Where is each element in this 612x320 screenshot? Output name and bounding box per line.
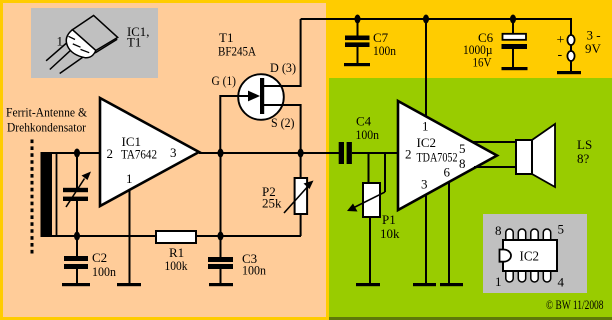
wire IC1 pin1 to ground — [129, 190, 131, 283]
capacitor C2 — [76, 236, 78, 257]
wire IC1 output to C4 — [199, 152, 340, 154]
P1 wiper arrow — [384, 153, 386, 192]
svg-text:8?: 8? — [577, 151, 590, 166]
svg-text:1: 1 — [126, 171, 133, 186]
capacitor C4 — [339, 142, 344, 164]
junction node antenna bottom — [74, 232, 80, 241]
DIP-8 pins top — [506, 229, 551, 240]
svg-text:TDA7052: TDA7052 — [417, 150, 458, 165]
svg-text:P1: P1 — [382, 212, 396, 227]
svg-text:16V: 16V — [473, 55, 493, 70]
junction node R1 C3 — [218, 232, 224, 241]
svg-text:G (1): G (1) — [212, 74, 237, 88]
svg-text:TA7642: TA7642 — [121, 147, 157, 162]
top supply rail — [301, 19, 571, 36]
antenna dashed rod axis — [31, 140, 34, 257]
svg-text:10k: 10k — [380, 226, 400, 241]
svg-text:5: 5 — [459, 141, 466, 156]
ground under minus terminal — [557, 71, 581, 74]
svg-text:-: - — [558, 48, 563, 63]
svg-text:1: 1 — [57, 34, 64, 49]
DIP-8 pins bottom — [506, 271, 551, 282]
svg-text:Ferrit-Antenne &: Ferrit-Antenne & — [6, 105, 87, 120]
potentiometer P1 — [368, 153, 370, 184]
ground under IC2 pin3 — [413, 283, 436, 286]
wire node to R1/C3 node — [220, 153, 222, 236]
svg-text:C2: C2 — [92, 250, 107, 265]
junction node IC2 pin1 rail — [423, 15, 429, 24]
svg-text:S (2): S (2) — [271, 116, 295, 130]
svg-text:LS: LS — [577, 137, 592, 152]
junction node P2 top — [298, 149, 304, 158]
svg-text:100n: 100n — [356, 127, 380, 142]
variable capacitor leads — [76, 153, 78, 189]
ground under IC1 — [117, 283, 141, 286]
wire C4 to IC2 pin 2 — [352, 152, 398, 154]
T1 source wire to node — [261, 105, 301, 153]
junction node antenna top — [74, 149, 80, 158]
gray panel: TO-92 package drawing — [31, 8, 158, 78]
potentiometer P2 — [300, 153, 302, 179]
junction node C7 rail — [355, 15, 361, 24]
op-amp IC2 TDA7052 triangle — [398, 101, 497, 210]
T1 gate wire — [220, 96, 248, 153]
svg-text:D (3): D (3) — [270, 61, 296, 75]
svg-text:100n: 100n — [242, 263, 266, 278]
TO-92 leads — [46, 40, 84, 74]
svg-text:3: 3 — [170, 145, 177, 160]
antenna ferrite rod L1 — [41, 152, 53, 236]
TO-92 package body — [66, 16, 117, 58]
svg-text:3: 3 — [421, 177, 428, 192]
ground under IC2 pin6 — [440, 283, 463, 286]
battery terminal plus — [567, 35, 574, 45]
svg-text:8: 8 — [495, 223, 502, 238]
antenna coil wire — [56, 153, 58, 237]
wire IC2 pin5 to speaker — [472, 141, 516, 143]
ground under C3 — [209, 283, 233, 286]
wire IC2 pin3 to ground — [425, 195, 427, 283]
svg-text:BF245A: BF245A — [218, 44, 257, 59]
svg-text:25k: 25k — [262, 196, 282, 211]
svg-text:2: 2 — [405, 147, 412, 162]
junction node C6 rail — [510, 15, 516, 24]
DIP-8 body — [503, 240, 557, 271]
speaker LS — [532, 124, 555, 187]
T1 drain wire to top rail — [261, 19, 301, 86]
gray panel: DIP-8 package drawing — [483, 214, 587, 293]
capacitor C7 — [357, 19, 359, 36]
wire R1 right to node — [196, 235, 301, 237]
ground under C7 — [344, 63, 370, 66]
wire IC2 pin8 to speaker — [474, 166, 516, 168]
resistor R1 — [156, 231, 196, 243]
capacitor C6 electrolytic — [512, 19, 514, 34]
capacitor C3 — [220, 236, 222, 258]
wire IC2 pin6 to ground — [448, 182, 450, 283]
wire IC2 pin1 from rail — [425, 19, 427, 118]
transistor T1 BF245A — [238, 74, 284, 120]
wire antenna top to IC1 input — [41, 152, 101, 154]
op-amp IC1 TA7642 triangle — [100, 98, 199, 206]
svg-text:9V: 9V — [585, 41, 602, 56]
svg-text:100n: 100n — [373, 43, 396, 58]
ground under P1 — [356, 283, 380, 286]
ground under C6 — [502, 67, 528, 70]
svg-text:5: 5 — [558, 222, 565, 237]
svg-text:6: 6 — [444, 165, 451, 180]
battery terminal minus — [570, 45, 572, 51]
svg-text:IC2: IC2 — [417, 135, 437, 150]
T1 channel bar — [260, 78, 264, 114]
svg-text:100n: 100n — [92, 264, 116, 279]
svg-text:100k: 100k — [165, 258, 188, 273]
variable capacitor plates — [63, 188, 88, 192]
svg-text:© BW 11/2008: © BW 11/2008 — [546, 297, 604, 312]
svg-text:IC2: IC2 — [520, 250, 540, 265]
svg-text:+: + — [557, 33, 565, 48]
svg-text:1: 1 — [495, 274, 502, 289]
variable capacitor arrow — [66, 179, 85, 208]
junction node output top — [218, 149, 224, 158]
background yellow supply region — [329, 0, 612, 78]
svg-text:Drehkondensator: Drehkondensator — [7, 119, 87, 134]
svg-text:4: 4 — [558, 275, 565, 290]
DIP-8 notch — [500, 250, 512, 262]
background green amplifier region — [329, 78, 612, 320]
svg-text:1: 1 — [422, 119, 429, 134]
ground under C2 — [62, 283, 90, 286]
wire antenna bottom rail — [41, 235, 158, 237]
svg-text:8: 8 — [459, 156, 466, 171]
svg-text:T1: T1 — [127, 35, 141, 49]
svg-text:2: 2 — [107, 146, 114, 161]
